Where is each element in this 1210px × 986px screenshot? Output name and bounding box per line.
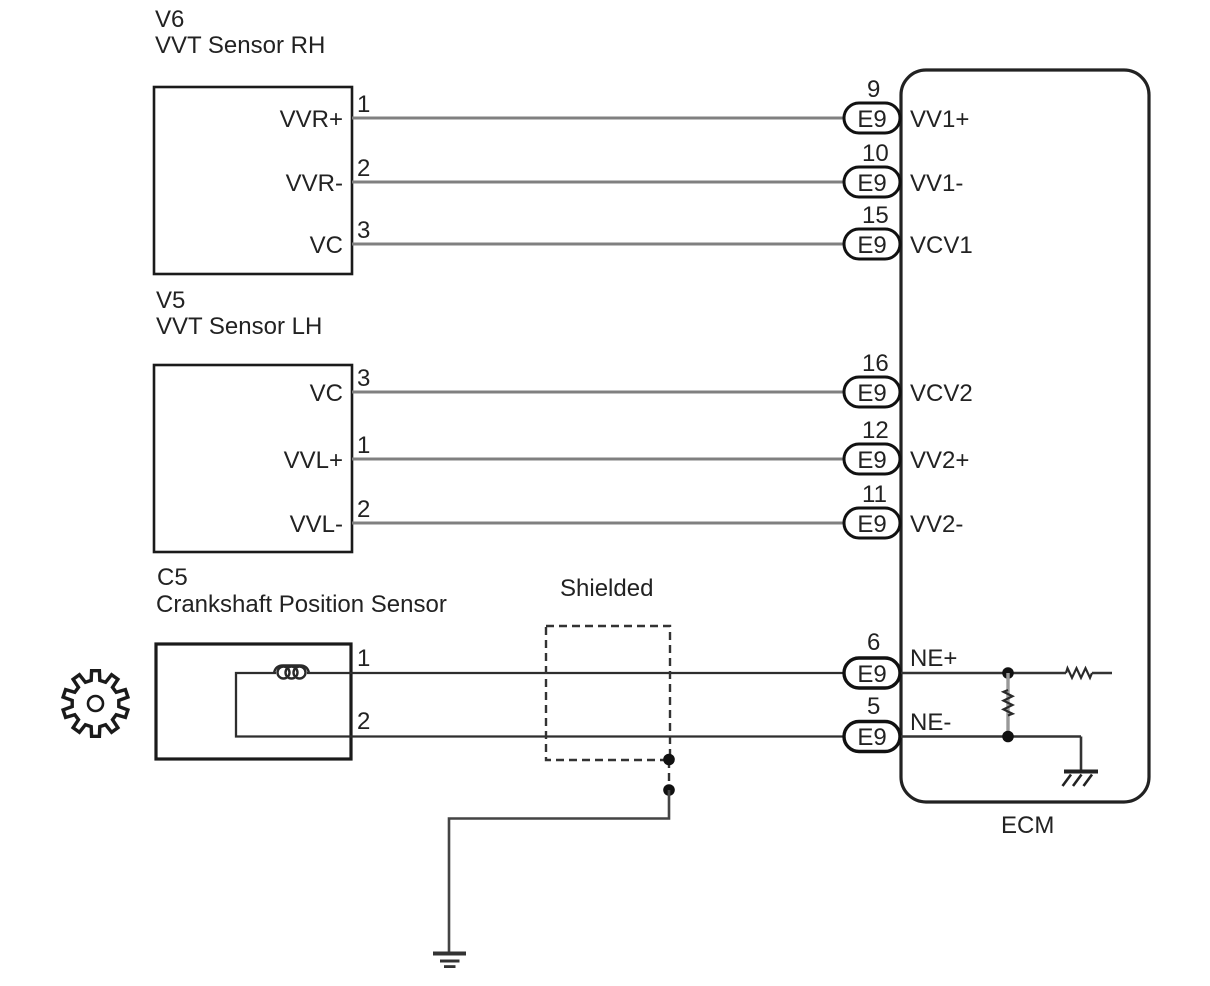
wire vertical resistor connector xyxy=(1006,673,1009,737)
svg-text:Crankshaft Position Sensor: Crankshaft Position Sensor xyxy=(156,591,447,618)
svg-text:E9: E9 xyxy=(857,380,886,407)
junction node NE+ xyxy=(1002,667,1014,679)
ECM box xyxy=(901,70,1149,802)
sensor V6 box xyxy=(154,87,352,274)
wire VC to E9-16 xyxy=(352,391,845,394)
svg-text:ECM: ECM xyxy=(1001,812,1054,839)
pickup coil L1 xyxy=(274,666,309,674)
gear rotor icon xyxy=(63,671,128,737)
svg-text:V6: V6 xyxy=(155,6,184,33)
connector E9 pin 12 xyxy=(844,417,900,474)
svg-text:15: 15 xyxy=(862,202,889,229)
svg-text:VC: VC xyxy=(310,232,343,259)
svg-text:3: 3 xyxy=(357,365,370,392)
sensor C5 box xyxy=(156,644,351,759)
svg-text:VV2+: VV2+ xyxy=(910,447,969,474)
wire NE+ to E9-6 xyxy=(307,672,845,674)
wire coil loop inside C5 xyxy=(236,673,845,737)
shield dashed box xyxy=(546,626,670,760)
connector E9 pin 15 xyxy=(844,202,900,259)
svg-text:2: 2 xyxy=(357,708,370,735)
wire NE- to chassis ground xyxy=(1080,737,1083,771)
svg-text:VV1-: VV1- xyxy=(910,170,963,197)
svg-text:11: 11 xyxy=(862,481,887,508)
svg-text:E9: E9 xyxy=(857,106,886,133)
svg-text:NE+: NE+ xyxy=(910,645,957,672)
wire VVL- to E9-11 xyxy=(352,522,845,525)
wire VVR- to E9-10 xyxy=(352,181,845,184)
svg-text:1: 1 xyxy=(357,91,370,118)
connector E9 pin 10 xyxy=(844,140,900,197)
svg-text:6: 6 xyxy=(867,629,880,656)
gear center hole xyxy=(88,696,103,711)
svg-text:VVL+: VVL+ xyxy=(284,447,343,474)
svg-text:E9: E9 xyxy=(857,447,886,474)
svg-text:E9: E9 xyxy=(857,511,886,538)
svg-text:C5: C5 xyxy=(157,564,188,591)
wire VVR+ to E9-9 xyxy=(352,117,845,120)
shield dashed drop wire xyxy=(668,760,670,790)
svg-text:12: 12 xyxy=(862,417,889,444)
resistor R1 horizontal xyxy=(1066,668,1092,678)
svg-text:2: 2 xyxy=(357,496,370,523)
earth ground symbol xyxy=(433,952,466,956)
svg-text:1: 1 xyxy=(357,432,370,459)
connector E9 pin 11 xyxy=(844,481,900,538)
svg-text:Shielded: Shielded xyxy=(560,575,653,602)
resistor R2 vertical xyxy=(1004,690,1013,716)
svg-text:VV2-: VV2- xyxy=(910,511,963,538)
connector E9 pin 9 xyxy=(844,76,900,133)
svg-text:10: 10 xyxy=(862,140,889,167)
connector E9 pin 6 xyxy=(844,629,900,688)
svg-text:VVL-: VVL- xyxy=(290,511,343,538)
svg-text:VC: VC xyxy=(310,380,343,407)
svg-text:E9: E9 xyxy=(857,232,886,259)
junction node NE- xyxy=(1002,731,1014,743)
svg-text:VVR-: VVR- xyxy=(286,170,343,197)
svg-text:VCV1: VCV1 xyxy=(910,232,973,259)
svg-text:3: 3 xyxy=(357,217,370,244)
sensor V5 box xyxy=(154,365,352,552)
svg-text:VCV2: VCV2 xyxy=(910,380,973,407)
wire NE- internal xyxy=(901,735,1081,738)
junction dot shield drain xyxy=(663,784,675,796)
svg-text:V5: V5 xyxy=(156,287,185,314)
svg-text:VV1+: VV1+ xyxy=(910,106,969,133)
wire VC to E9-15 xyxy=(352,243,845,246)
svg-text:E9: E9 xyxy=(857,724,886,751)
svg-text:9: 9 xyxy=(867,76,880,103)
shield drain wire to ground xyxy=(449,790,669,952)
svg-text:VVT Sensor RH: VVT Sensor RH xyxy=(155,32,325,59)
connector E9 pin 16 xyxy=(844,350,900,407)
svg-text:1: 1 xyxy=(357,645,370,672)
connector E9 pin 5 xyxy=(844,693,900,752)
wire NE+ internal xyxy=(901,672,1066,675)
svg-text:2: 2 xyxy=(357,155,370,182)
svg-text:E9: E9 xyxy=(857,170,886,197)
junction dot shield corner xyxy=(663,754,675,766)
svg-text:16: 16 xyxy=(862,350,889,377)
wire after R1 xyxy=(1092,672,1112,675)
svg-text:NE-: NE- xyxy=(910,709,951,736)
svg-text:VVR+: VVR+ xyxy=(280,106,343,133)
svg-text:VVT Sensor LH: VVT Sensor LH xyxy=(156,313,322,340)
wire VVL+ to E9-12 xyxy=(352,458,845,461)
svg-text:5: 5 xyxy=(867,693,880,720)
chassis ground symbol xyxy=(1064,770,1098,774)
svg-text:E9: E9 xyxy=(857,661,886,688)
